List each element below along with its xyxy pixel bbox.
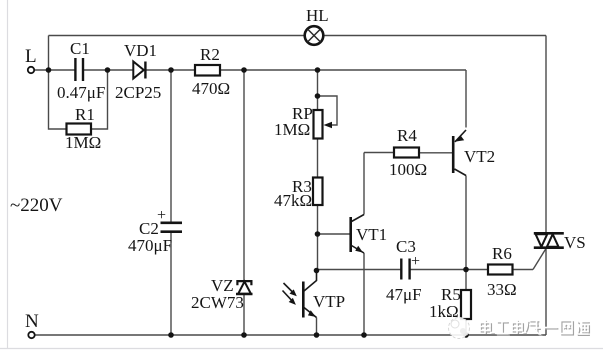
wire VT2 emitter drop bbox=[465, 70, 467, 128]
svg-text:L: L bbox=[25, 46, 37, 67]
capacitor C3 bbox=[401, 259, 409, 280]
svg-text:2CW73: 2CW73 bbox=[191, 293, 244, 312]
terminal L bbox=[28, 67, 34, 73]
resistor R6 bbox=[488, 265, 513, 275]
wire VTP node to C3 bbox=[317, 269, 402, 271]
svg-text:+: + bbox=[411, 253, 420, 270]
svg-text:2CP25: 2CP25 bbox=[115, 83, 161, 102]
capacitor C2 bbox=[161, 223, 183, 232]
wire R1 loop left bbox=[49, 70, 67, 129]
node VTP emitter junction bbox=[314, 332, 320, 338]
svg-text:HL: HL bbox=[306, 6, 329, 25]
wire VD1 to R2 bbox=[147, 69, 196, 71]
capacitor C1 bbox=[75, 58, 83, 81]
phototransistor VTP bbox=[283, 271, 317, 318]
wire node to RP top bbox=[317, 70, 319, 110]
resistor R2 bbox=[195, 65, 220, 76]
svg-text:VT1: VT1 bbox=[356, 225, 387, 244]
resistor R4 bbox=[394, 148, 419, 158]
node R5 bottom junction bbox=[463, 332, 469, 338]
node VZ bottom junction bbox=[241, 332, 247, 338]
resistor R1 bbox=[67, 124, 92, 135]
wire top branch up from node A bbox=[48, 36, 50, 71]
wire C2 branch upper bbox=[170, 70, 172, 222]
watermark logo bbox=[449, 318, 470, 339]
wire RP to R3 bbox=[317, 139, 319, 178]
node RP top junction bbox=[315, 67, 321, 73]
svg-text:47kΩ: 47kΩ bbox=[274, 191, 312, 210]
wire R4 right to VT2 base bbox=[419, 152, 452, 154]
node VD1-C2 junction bbox=[168, 67, 174, 73]
wire R1 loop right bbox=[91, 70, 108, 129]
svg-text:47μF: 47μF bbox=[386, 285, 422, 304]
node VT1 base junction bbox=[315, 231, 321, 237]
terminal N bbox=[28, 332, 34, 338]
resistor R3 bbox=[313, 178, 323, 206]
svg-text:VTP: VTP bbox=[313, 292, 345, 311]
svg-text:1MΩ: 1MΩ bbox=[274, 120, 310, 139]
svg-text:470μF: 470μF bbox=[128, 236, 172, 255]
wire VS gate diagonal bbox=[533, 249, 546, 270]
node R2-VZ junction bbox=[241, 67, 247, 73]
node C1-R1 junction bbox=[105, 67, 111, 73]
svg-text:33Ω: 33Ω bbox=[487, 280, 517, 299]
svg-text:470Ω: 470Ω bbox=[192, 79, 230, 98]
svg-text:C1: C1 bbox=[70, 39, 90, 58]
svg-text:100Ω: 100Ω bbox=[389, 160, 427, 179]
svg-text:VT2: VT2 bbox=[464, 147, 495, 166]
node VT1 emitter junction bbox=[361, 332, 367, 338]
node C2 bottom junction bbox=[168, 332, 174, 338]
svg-text:+: + bbox=[157, 207, 166, 224]
wire R6 right bbox=[513, 269, 534, 271]
svg-text:N: N bbox=[25, 311, 39, 332]
wire VZ branch lower bbox=[243, 295, 245, 336]
wire VT2 collector down bbox=[465, 176, 467, 270]
svg-text:1kΩ: 1kΩ bbox=[429, 302, 459, 321]
potentiometer RP bbox=[314, 110, 333, 139]
wire right drop to VS anode bbox=[545, 36, 547, 234]
wire N rail bbox=[35, 334, 547, 336]
wire C3 to R6 bbox=[410, 269, 488, 271]
wire R2 to VT2 emitter node bbox=[220, 69, 466, 71]
wire VTP emitter drop bbox=[316, 318, 318, 336]
wire VT1 collector up bbox=[363, 153, 365, 215]
node VTP collector junction bbox=[314, 268, 320, 274]
node C3-R5-R6 junction bbox=[463, 267, 469, 273]
svg-text:R2: R2 bbox=[200, 45, 220, 64]
transistor VT1 bbox=[351, 215, 364, 254]
wire top rail right of HL bbox=[323, 35, 546, 37]
triac VS bbox=[534, 233, 564, 247]
node A L-C1 junction bbox=[46, 67, 52, 73]
svg-text:VS: VS bbox=[564, 233, 586, 252]
transistor VT2 bbox=[453, 130, 466, 176]
svg-text:~220V: ~220V bbox=[10, 195, 63, 216]
wire to R4 left bbox=[364, 152, 394, 154]
resistor R5 bbox=[461, 290, 471, 319]
svg-text:VD1: VD1 bbox=[124, 41, 157, 60]
wire VZ branch upper bbox=[243, 70, 245, 281]
wire VS cathode drop bbox=[545, 248, 547, 335]
page border bottom bbox=[0, 348, 603, 350]
wire R5 top bbox=[465, 270, 467, 291]
page border left bbox=[7, 0, 9, 349]
wire C2 branch lower bbox=[170, 233, 172, 336]
wire RP wiper bbox=[318, 96, 338, 125]
svg-text:R1: R1 bbox=[75, 105, 95, 124]
svg-text:R6: R6 bbox=[492, 244, 512, 263]
wire top rail left of HL bbox=[49, 35, 305, 37]
svg-text:R4: R4 bbox=[397, 126, 417, 145]
diode VD1 bbox=[133, 62, 145, 79]
wire L rail left bbox=[35, 69, 76, 71]
node wiper tap junction bbox=[315, 93, 321, 99]
wire VT1 emitter drop bbox=[363, 253, 365, 335]
zener diode VZ bbox=[236, 281, 253, 294]
wire R3 to VTP node bbox=[317, 205, 319, 271]
wire R5 bottom bbox=[465, 319, 467, 335]
lamp HL bbox=[305, 26, 324, 45]
wire VT1 base bbox=[318, 233, 350, 235]
svg-text:1MΩ: 1MΩ bbox=[65, 133, 101, 152]
wire C1 to VD1 bbox=[83, 69, 134, 71]
svg-text:0.47μF: 0.47μF bbox=[57, 83, 105, 102]
